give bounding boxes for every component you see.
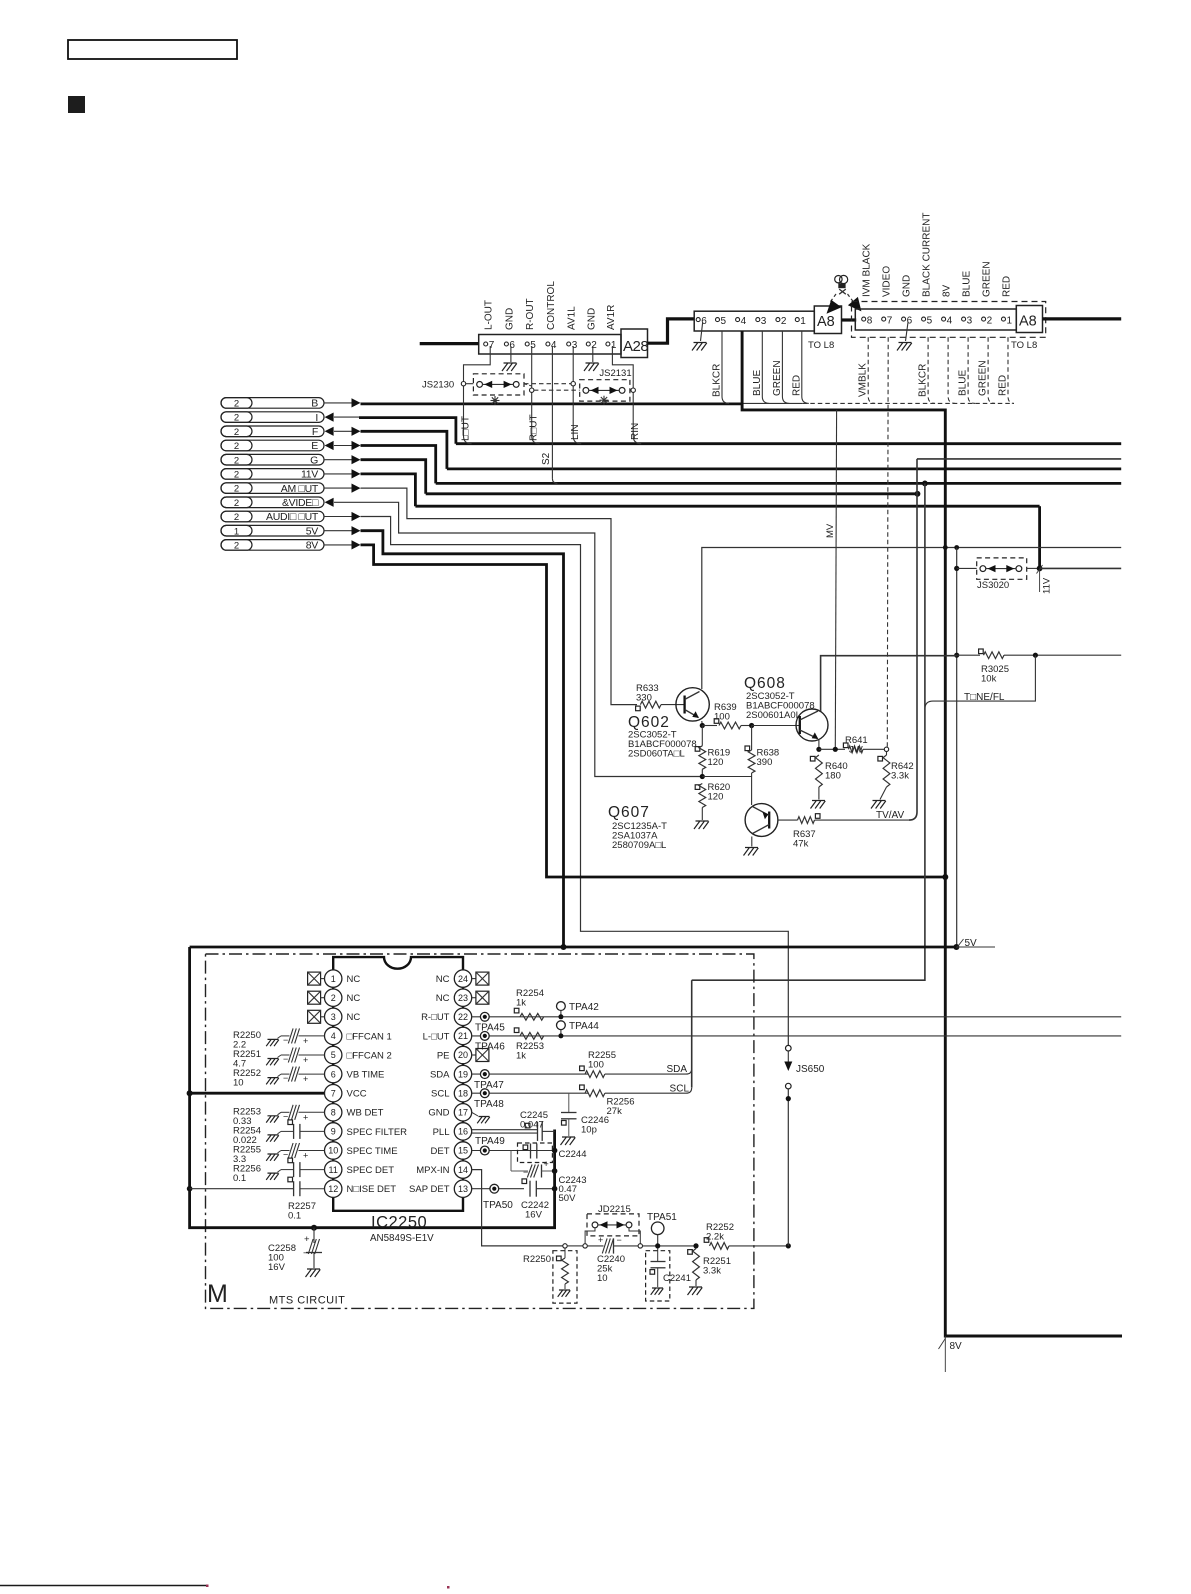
node MPX open circle 2 (583, 1244, 587, 1248)
svg-text:10: 10 (233, 1078, 244, 1089)
wire AUDIO OUT row (324, 516, 352, 518)
resistor R2254 (514, 1008, 519, 1013)
IC2250 pin 9 (325, 1123, 342, 1140)
svg-text:VCC: VCC (347, 1089, 367, 1100)
svg-text:7: 7 (887, 316, 893, 327)
svg-text:2S00601A0L: 2S00601A0L (746, 710, 801, 721)
node AM OUT bus stub (221, 483, 324, 494)
svg-text:16V: 16V (268, 1262, 286, 1273)
node I bus stub (221, 412, 324, 423)
svg-text:&VIDE□: &VIDE□ (282, 497, 319, 509)
IC2250 pin 3 (325, 1008, 342, 1025)
svg-text:BLUE: BLUE (962, 271, 973, 297)
wire A8 output right (1043, 317, 1122, 320)
wire VCC frame thick (190, 947, 555, 1228)
svg-text:23: 23 (458, 993, 468, 1003)
svg-text:17: 17 (458, 1108, 468, 1118)
ground pin 17 (472, 1112, 478, 1116)
IC2250 pin 22 (454, 1008, 471, 1025)
svg-text:5V: 5V (306, 525, 319, 537)
wire ROUT (531, 346, 533, 388)
svg-text:120: 120 (708, 757, 724, 768)
wire 8V dashed stub (948, 337, 955, 403)
A8 connector pin 5 (922, 317, 926, 321)
resistor R2255 (580, 1066, 585, 1071)
ground R642 (871, 801, 886, 809)
middle connector pin 5 (716, 318, 720, 322)
wire R638 to Q607 (751, 773, 753, 805)
svg-text:4: 4 (551, 340, 557, 351)
lamp symbol (835, 276, 842, 283)
svg-text:16V: 16V (525, 1210, 543, 1221)
svg-text:C2244: C2244 (559, 1149, 587, 1160)
svg-text:LIN: LIN (570, 424, 581, 440)
transistor Q608 (796, 709, 828, 741)
node MPX open circle 3 (638, 1244, 642, 1248)
svg-text:TPA45: TPA45 (475, 1023, 505, 1034)
svg-text:0.022: 0.022 (233, 1135, 257, 1146)
svg-text:−: − (303, 1248, 309, 1259)
node 8V join (942, 874, 948, 880)
resistor R2252 (704, 1238, 709, 1243)
ground R2251 (688, 1287, 703, 1295)
svg-text:2: 2 (234, 470, 239, 481)
svg-text:2: 2 (234, 441, 239, 452)
svg-text:1: 1 (331, 974, 336, 984)
capacitor pin 9 (266, 1135, 279, 1142)
capacitor pin 11 (266, 1173, 279, 1180)
svg-text:5: 5 (331, 1050, 336, 1060)
wire TV/AV net horizontal (917, 458, 1121, 460)
svg-text:5: 5 (530, 340, 536, 351)
test point TPA45 / R-OUT line (472, 1016, 1121, 1018)
svg-text:BLKCR: BLKCR (712, 364, 723, 397)
svg-text:180: 180 (825, 771, 841, 782)
svg-text:TPA49: TPA49 (475, 1136, 505, 1147)
transistor Q602 (676, 688, 709, 721)
IC2250 pin 15 (454, 1142, 471, 1159)
capacitor R2253 0.33 pin 8 (266, 1116, 279, 1123)
svg-text:−: − (283, 1073, 288, 1083)
svg-text:5: 5 (721, 316, 727, 327)
svg-text:R-□UT: R-□UT (421, 1012, 450, 1023)
node &VIDEO bus stub (221, 497, 324, 508)
A8 connector pin 1 (1002, 317, 1006, 321)
svg-text:AM □UT: AM □UT (281, 483, 319, 495)
svg-text:□FFCAN 1: □FFCAN 1 (347, 1031, 392, 1042)
NC termination pin 3 (308, 1010, 321, 1023)
A28 pin 3 (567, 342, 571, 346)
connector (to A8) body (694, 311, 814, 331)
bottom page edge line (0, 1585, 207, 1587)
svg-text:2: 2 (234, 399, 239, 410)
svg-text:TPA44: TPA44 (569, 1021, 599, 1032)
svg-text:47k: 47k (793, 839, 809, 850)
svg-text:20: 20 (458, 1050, 468, 1060)
svg-text:100: 100 (714, 712, 730, 723)
test point TPA49 / DET (472, 1150, 555, 1152)
node 11V bus stub (221, 469, 324, 480)
svg-text:C2241: C2241 (663, 1273, 691, 1284)
IC2250 pin 23 (454, 989, 471, 1006)
svg-text:RED: RED (998, 375, 1009, 396)
svg-text:TO L8: TO L8 (808, 340, 834, 351)
svg-text:DET: DET (431, 1146, 450, 1157)
node R641 to video dashed (884, 747, 888, 751)
svg-text:7: 7 (331, 1088, 336, 1098)
svg-text:SCL: SCL (431, 1089, 449, 1100)
capacitor C2240 (587, 1245, 603, 1247)
connector A28 body (479, 335, 621, 355)
svg-text:JS650: JS650 (796, 1064, 825, 1075)
wire GREEN stub (782, 331, 789, 403)
wire BLUE stub (762, 331, 769, 403)
svg-text:G: G (310, 454, 318, 466)
svg-text:MV: MV (825, 523, 836, 538)
capacitor C2245 / PLL (472, 1129, 538, 1131)
wire 5V row (324, 530, 352, 532)
ground R620 (694, 821, 709, 829)
svg-text:AV1R: AV1R (606, 305, 617, 330)
wire G row (324, 459, 352, 461)
svg-text:TV/AV: TV/AV (876, 810, 904, 821)
A8 connector pin 2 (982, 317, 986, 321)
svg-text:8V: 8V (306, 540, 319, 552)
svg-text:JS2131: JS2131 (599, 368, 631, 379)
middle connector pin 2 (776, 318, 780, 322)
NC termination pin 23 (472, 997, 476, 999)
svg-text:T□NE/FL: T□NE/FL (964, 692, 1005, 703)
svg-text:+: + (303, 1055, 308, 1065)
resistor R2251 (693, 1243, 698, 1248)
svg-text:14: 14 (458, 1165, 468, 1175)
middle connector pin 1 (795, 318, 799, 322)
svg-text:10k: 10k (981, 674, 997, 685)
svg-text:L-OUT: L-OUT (484, 300, 495, 330)
svg-text:BLKCR: BLKCR (918, 364, 929, 397)
svg-text:A8: A8 (817, 314, 835, 330)
svg-text:9: 9 (331, 1127, 336, 1137)
capacitor R2252 10 pin 6 (266, 1078, 279, 1085)
svg-text:□FFCAN 2: □FFCAN 2 (347, 1050, 392, 1061)
svg-text:JS3020: JS3020 (977, 580, 1009, 591)
svg-text:CONTROL: CONTROL (546, 281, 557, 330)
connector A28 label box (621, 329, 648, 358)
svg-text:R-OUT: R-OUT (525, 298, 536, 330)
svg-text:MTS CIRCUIT: MTS CIRCUIT (269, 1295, 345, 1307)
wire E branch vertical (922, 481, 928, 487)
transistor Q607 (745, 804, 778, 837)
wire GREEN dashed stub right (988, 337, 995, 403)
A28 pin 4 (546, 342, 550, 346)
wire I row (325, 413, 334, 422)
svg-text:1: 1 (234, 526, 239, 537)
svg-text:2: 2 (234, 413, 239, 424)
jumper JS2131 (534, 389, 580, 391)
NC termination pin 2 (308, 991, 321, 1004)
svg-text:IC2250: IC2250 (371, 1214, 427, 1232)
ground Q607 (744, 848, 759, 856)
svg-text:RED: RED (791, 375, 802, 396)
wire A28 to A8 link (648, 319, 695, 343)
wire SDA/SCL riser (691, 980, 693, 1087)
svg-text:AV1L: AV1L (567, 306, 578, 330)
svg-text:TPA50: TPA50 (483, 1200, 513, 1211)
svg-text:L□UT: L□UT (461, 416, 472, 441)
svg-text:NC: NC (347, 1012, 361, 1023)
IC2250 pin 19 (454, 1065, 471, 1082)
wire dashed lamp to A8 left (830, 294, 837, 303)
middle connector pin 4 (736, 318, 740, 322)
svg-text:Q602: Q602 (628, 714, 670, 731)
svg-text:B: B (311, 398, 318, 410)
wire feeder into A28 (420, 342, 479, 345)
ground A28 pin2 (592, 346, 594, 362)
svg-text:SAP DET: SAP DET (409, 1184, 450, 1195)
ground R640 (811, 801, 826, 809)
svg-text:0.047: 0.047 (520, 1120, 544, 1131)
svg-text:IVM BLACK: IVM BLACK (862, 243, 873, 297)
svg-text:2: 2 (234, 498, 239, 509)
resistor R642 (878, 756, 883, 761)
wire &VIDEO row (325, 498, 334, 507)
ground A8 pin6 (906, 322, 909, 342)
capacitor C2242 (522, 1179, 527, 1184)
svg-text:18: 18 (458, 1088, 468, 1098)
wire R619 node to Q607 top (702, 776, 751, 778)
svg-text:3.3k: 3.3k (891, 771, 909, 782)
A8 connector pin 8 (862, 317, 866, 321)
IC2250 pin 4 (325, 1027, 342, 1044)
resistor R2256 (580, 1085, 585, 1090)
ground A28 pin6 (510, 346, 512, 362)
IC2250 pin 2 (325, 989, 342, 1006)
svg-text:TPA47: TPA47 (474, 1080, 504, 1091)
resistor R640 (810, 756, 815, 761)
capacitor R2255 3.3 pin 10 (266, 1154, 279, 1161)
IC2250 pin 16 (454, 1123, 471, 1140)
svg-text:5: 5 (927, 316, 933, 327)
svg-text:−: − (617, 1235, 622, 1245)
IC2250 pin 21 (454, 1027, 471, 1044)
IC2250 pin 11 (325, 1161, 342, 1178)
svg-text:NC: NC (347, 993, 361, 1004)
svg-text:7: 7 (489, 340, 495, 351)
capacitor C2257 pin 12 (187, 1186, 193, 1192)
node MPX open circle 1 (563, 1244, 567, 1248)
svg-text:3: 3 (967, 316, 973, 327)
svg-text:NC: NC (436, 993, 450, 1004)
svg-text:12: 12 (328, 1184, 338, 1194)
wire A8-A8 link (842, 318, 857, 321)
svg-text:10p: 10p (581, 1125, 597, 1136)
svg-text:GREEN: GREEN (772, 360, 783, 396)
svg-text:16: 16 (458, 1127, 468, 1137)
svg-text:11V: 11V (1042, 577, 1053, 594)
svg-text:JW: JW (849, 745, 863, 756)
svg-text:3: 3 (331, 1012, 336, 1022)
wire A28 pin7 to JS2130 (464, 346, 491, 381)
wire TONE/FL (933, 655, 1035, 701)
svg-text:NC: NC (347, 974, 361, 985)
resistor R619 (701, 726, 703, 746)
svg-text:GREEN: GREEN (978, 360, 989, 396)
test point TPA42 (557, 1002, 566, 1011)
wire pin4 8V feed (thick) (742, 331, 1122, 1336)
svg-text:AN5849S-E1V: AN5849S-E1V (370, 1233, 434, 1244)
jumper JS3020 (954, 566, 959, 571)
capacitor C2243 (510, 1151, 512, 1172)
svg-text:2: 2 (234, 455, 239, 466)
svg-text:2: 2 (234, 541, 239, 552)
A8 connector pin 3 (962, 317, 966, 321)
svg-text:SPEC TIME: SPEC TIME (347, 1146, 398, 1157)
svg-text:2.2k: 2.2k (706, 1232, 724, 1243)
wire Q608 emitter node (818, 740, 820, 749)
NC termination pin 20 PE (472, 1054, 476, 1056)
connector A8 right body (855, 309, 1016, 330)
resistor R638 (745, 746, 750, 751)
wire Q602 collector net (702, 548, 1121, 690)
svg-text:+: + (303, 1151, 308, 1161)
svg-text:2: 2 (234, 427, 239, 438)
svg-text:GND: GND (504, 308, 515, 330)
svg-text:2: 2 (781, 316, 787, 327)
svg-text:5V: 5V (965, 938, 978, 949)
IC2250 pin 20 (454, 1046, 471, 1063)
resistor R633 (636, 706, 641, 711)
resistor R620 (695, 785, 700, 790)
svg-text:4: 4 (947, 316, 953, 327)
svg-text:+: + (304, 1234, 310, 1245)
svg-text:SDA: SDA (430, 1070, 450, 1081)
svg-text:WB DET: WB DET (347, 1108, 384, 1119)
MTS circuit dash-dot border (206, 954, 754, 1308)
wire dashed to ROUT circle (524, 384, 532, 386)
svg-text:21: 21 (458, 1031, 468, 1041)
test point TPA48 / SCL (472, 1092, 588, 1094)
svg-text:N□ISE DET: N□ISE DET (347, 1184, 397, 1195)
svg-text:RED: RED (1002, 276, 1013, 297)
IC2250 pin 24 (454, 970, 471, 987)
svg-text:1: 1 (800, 316, 806, 327)
svg-text:10: 10 (328, 1146, 338, 1156)
wire 11V row (324, 473, 352, 475)
wire RED stub (802, 331, 809, 403)
svg-text:15: 15 (458, 1146, 468, 1156)
node F bus stub (221, 426, 324, 437)
svg-text:2: 2 (591, 340, 597, 351)
svg-text:BLACK CURRENT: BLACK CURRENT (922, 213, 933, 297)
svg-text:19: 19 (458, 1069, 468, 1079)
svg-text:1k: 1k (516, 1051, 526, 1062)
wire B row (324, 402, 352, 404)
svg-text:PE: PE (437, 1050, 450, 1061)
wire Q602 emitter (701, 721, 704, 726)
svg-text:A8: A8 (1019, 314, 1037, 330)
svg-text:4: 4 (331, 1031, 336, 1041)
svg-text:4: 4 (741, 316, 747, 327)
svg-text:SPEC FILTER: SPEC FILTER (347, 1127, 408, 1138)
node TONE/FL branch (1033, 653, 1038, 658)
capacitor C2244 dashed box (518, 1143, 553, 1163)
test point TPA46 / L-OUT line (472, 1035, 1121, 1037)
resistor R3025 (954, 653, 959, 658)
A28 pin 7 (484, 342, 488, 346)
test point TPA44 (557, 1021, 566, 1030)
IC2250 pin 8 (325, 1104, 342, 1121)
NC termination pin 24 (472, 978, 476, 980)
wire VCC pin7 feed (190, 1092, 325, 1095)
svg-text:6: 6 (509, 340, 515, 351)
IC2250 pin 17 (454, 1104, 471, 1121)
svg-text:L-□UT: L-□UT (423, 1031, 450, 1042)
resistor R2253 (514, 1028, 519, 1033)
svg-text:+: + (303, 1112, 308, 1122)
IC2250 pin 7 (325, 1085, 342, 1102)
jumper JS650 (786, 1045, 792, 1051)
test point TPA50 / SAP DET (472, 1188, 524, 1190)
wire Q608 collector (821, 656, 957, 711)
svg-text:8: 8 (867, 316, 873, 327)
A8 connector pin 4 (942, 317, 946, 321)
svg-text:RIN: RIN (630, 423, 641, 440)
node AUDIO OUT bus stub (221, 511, 324, 522)
node G to TV/AV junction (915, 491, 921, 497)
svg-text:E: E (311, 440, 318, 452)
capacitor C2258 (311, 1225, 317, 1231)
IC2250 pin 18 (454, 1085, 471, 1102)
wire BLKCR stub (722, 331, 729, 403)
svg-text:SPEC DET: SPEC DET (347, 1165, 395, 1176)
svg-text:2: 2 (987, 316, 993, 327)
wire RED dashed stub right (1008, 337, 1014, 403)
svg-text:R□UT: R□UT (529, 414, 540, 441)
capacitor R2250 2.2 pin 4 (266, 1039, 279, 1046)
IC2250 pin 1 (325, 970, 342, 987)
middle connector pin 3 (756, 318, 760, 322)
svg-text:0.1: 0.1 (288, 1211, 301, 1222)
svg-text:330: 330 (636, 693, 652, 704)
svg-text:I: I (315, 412, 318, 424)
svg-text:TPA48: TPA48 (474, 1099, 504, 1110)
test point TPA47 / SDA (472, 1073, 588, 1075)
svg-text:−: − (523, 1167, 528, 1177)
capacitor C2246 (568, 1093, 570, 1112)
svg-text:1: 1 (611, 340, 617, 351)
svg-text:PLL: PLL (433, 1127, 450, 1138)
A28 pin 6 (504, 342, 508, 346)
svg-text:BLUE: BLUE (958, 370, 969, 396)
svg-text:+: + (303, 1074, 308, 1084)
svg-text:8: 8 (331, 1108, 336, 1118)
wire E row (325, 441, 334, 450)
top-left title box (68, 40, 237, 59)
A8 connector pin 6 (902, 317, 906, 321)
wire BLKCR dashed stub right (928, 337, 935, 403)
svg-text:MPX-IN: MPX-IN (416, 1165, 449, 1176)
svg-text:VMBLK: VMBLK (858, 363, 869, 397)
wire BLUE dashed stub right (968, 337, 975, 403)
svg-text:TPA42: TPA42 (569, 1002, 599, 1013)
svg-text:AUDI□ □UT: AUDI□ □UT (266, 511, 319, 523)
svg-text:NC: NC (436, 974, 450, 985)
IC2250 pin 13 (454, 1180, 471, 1197)
connector A8 right dashed outline (852, 302, 1046, 338)
svg-text:GND: GND (902, 275, 913, 297)
connector A8 left box (814, 306, 841, 334)
wire LIN (572, 346, 574, 382)
